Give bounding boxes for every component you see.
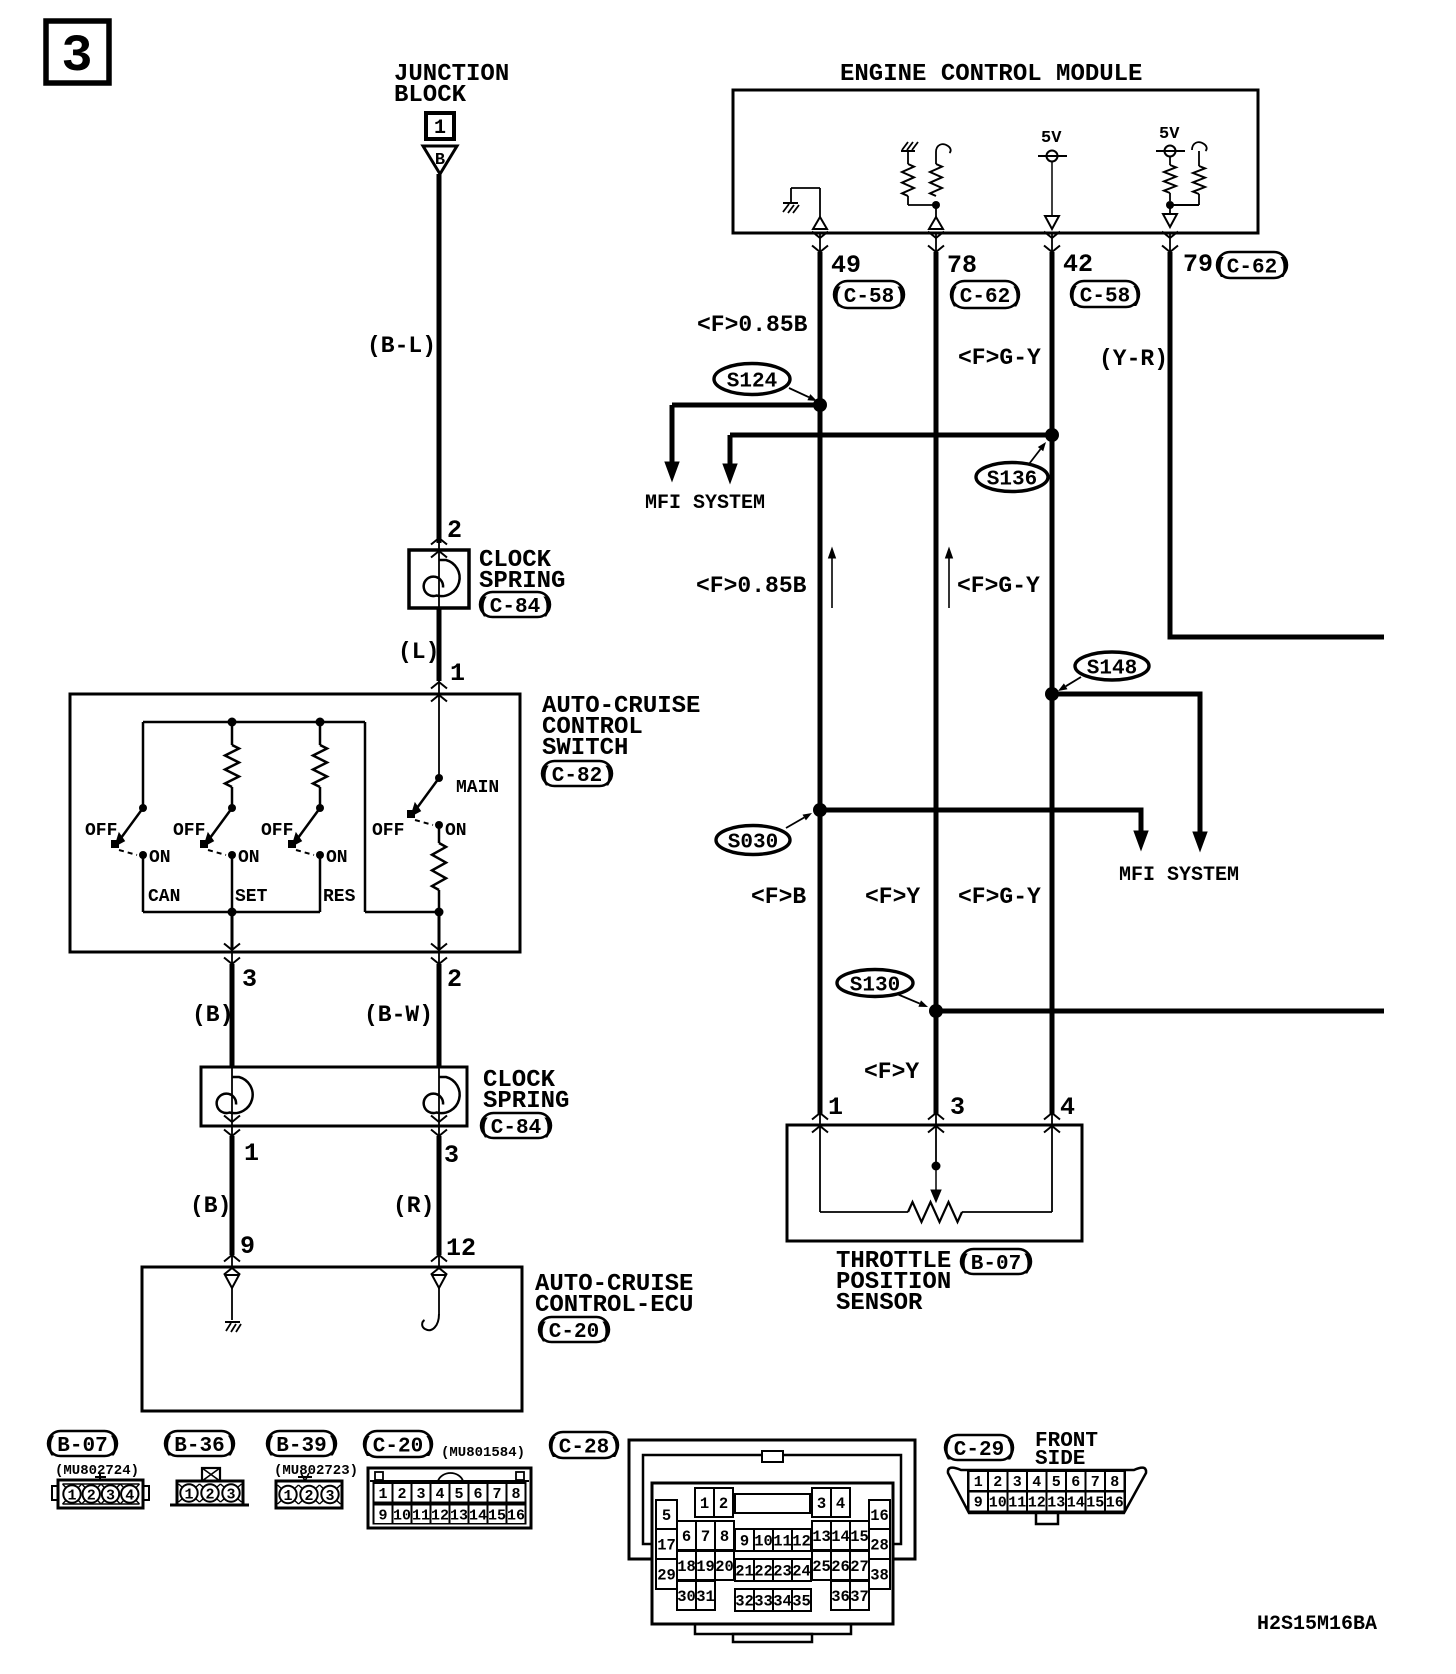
svg-text:ON: ON (326, 848, 348, 868)
svg-text:21: 21 (735, 1563, 754, 1581)
resistor RES (313, 745, 327, 787)
svg-text:1: 1 (450, 659, 465, 688)
svg-text:14: 14 (831, 1528, 850, 1546)
connector C-20 pinout drawing (368, 1468, 531, 1528)
ECM pin49 connector marks (812, 232, 828, 239)
TPS pin3 connector marks (928, 1113, 944, 1120)
svg-text:23: 23 (773, 1563, 792, 1581)
svg-text:12: 12 (446, 1234, 476, 1263)
splice S130 label (837, 970, 913, 998)
svg-text:17: 17 (657, 1537, 676, 1555)
TPS right wire horizontal (962, 1211, 1052, 1213)
svg-text:<F>G-Y: <F>G-Y (957, 573, 1040, 599)
TPS pin4 connector marks (1044, 1113, 1060, 1120)
TPS label (836, 1248, 951, 1317)
svg-text:10: 10 (989, 1495, 1007, 1512)
auto-cruise control switch box C-82 (70, 694, 520, 952)
splice S124 label (714, 364, 790, 395)
svg-text:(C-62): (C-62) (947, 286, 1023, 309)
node bus-RES (316, 718, 325, 727)
svg-text:(R): (R) (393, 1193, 434, 1219)
svg-text:1: 1 (974, 1474, 983, 1491)
svg-text:5: 5 (454, 1486, 463, 1503)
connector B-39 pinout drawing (276, 1473, 342, 1508)
svg-text:ENGINE CONTROL MODULE: ENGINE CONTROL MODULE (840, 61, 1142, 88)
connector label C-84 upper (477, 592, 553, 619)
svg-text:MAIN: MAIN (456, 778, 499, 798)
bus drop SET lower (231, 787, 234, 808)
svg-text:3: 3 (61, 27, 92, 86)
svg-text:1: 1 (283, 1488, 292, 1505)
svg-text:3: 3 (950, 1093, 965, 1122)
svg-text:2: 2 (993, 1474, 1002, 1491)
svg-text:<F>0.85B: <F>0.85B (697, 312, 808, 338)
clock spring lower left spiral (217, 1077, 253, 1113)
svg-text:22: 22 (754, 1563, 773, 1581)
switch RES (288, 804, 324, 859)
svg-text:34: 34 (773, 1593, 792, 1611)
svg-text:3: 3 (416, 1486, 425, 1503)
splice S148 label (1075, 652, 1149, 681)
switch MAIN (407, 774, 443, 829)
splice S130 leader (897, 994, 920, 1004)
clock spring lower left wire (231, 1067, 233, 1126)
connector label B-39 (264, 1431, 340, 1458)
svg-text:4: 4 (435, 1486, 444, 1503)
svg-text:14: 14 (1067, 1495, 1085, 1512)
svg-text:6: 6 (1071, 1474, 1080, 1491)
TPS pin4 wire (1051, 1125, 1053, 1212)
connector label C-84 lower (478, 1113, 554, 1140)
svg-text:78: 78 (947, 251, 977, 280)
svg-text:<F>G-Y: <F>G-Y (958, 884, 1041, 910)
auto-cruise control switch label (542, 693, 700, 762)
wire pin12 thin (438, 1255, 440, 1267)
svg-text:4: 4 (836, 1495, 845, 1513)
svg-text:ON: ON (238, 848, 260, 868)
wire S030 branch (820, 810, 1141, 830)
svg-text:OFF: OFF (85, 821, 117, 841)
ECM pin79 5V pullups (1156, 125, 1207, 227)
svg-text:S130: S130 (850, 975, 900, 998)
svg-text:(B-W): (B-W) (364, 1002, 433, 1028)
svg-text:12: 12 (792, 1533, 811, 1551)
svg-text:11: 11 (1008, 1495, 1026, 1512)
svg-text:35: 35 (792, 1593, 811, 1611)
svg-text:OFF: OFF (173, 821, 205, 841)
splice S124 leader (789, 388, 809, 397)
svg-text:11: 11 (412, 1508, 430, 1525)
connector marks pin 3 lower (431, 1116, 447, 1123)
svg-text:38: 38 (870, 1567, 889, 1585)
node S124 (813, 398, 827, 412)
svg-text:S030: S030 (728, 832, 778, 855)
svg-text:SENSOR: SENSOR (836, 1290, 923, 1317)
svg-text:CAN: CAN (148, 887, 180, 907)
svg-text:BLOCK: BLOCK (394, 82, 467, 109)
TPS pin1 wire (819, 1125, 821, 1212)
svg-text:37: 37 (850, 1588, 869, 1606)
bus drop RES lower (319, 787, 322, 808)
ECU hook symbol (422, 1314, 439, 1330)
svg-text:(B): (B) (192, 1002, 233, 1028)
svg-text:<F>Y: <F>Y (864, 1059, 919, 1085)
svg-text:9: 9 (974, 1495, 983, 1512)
svg-text:(B-07): (B-07) (45, 1435, 121, 1458)
connector label C-20 (360, 1431, 436, 1459)
splice S136 label (976, 463, 1048, 492)
connector label B-36 (162, 1431, 238, 1458)
svg-text:(C-84): (C-84) (477, 596, 553, 619)
connector marks pin 1 lower (224, 1116, 240, 1123)
svg-text:49: 49 (831, 251, 861, 280)
junction block triangle B (423, 146, 457, 174)
wire 78 vertical (934, 252, 939, 1115)
ECU ground symbol (225, 1322, 241, 1332)
connector label C-29 (941, 1435, 1017, 1462)
bus drop CAN (142, 722, 145, 808)
bus drop RES upper (319, 722, 322, 745)
ECU label (535, 1271, 693, 1319)
resistor SET (225, 745, 239, 787)
connector marks pin 2 bottom (431, 944, 447, 951)
svg-text:18: 18 (677, 1558, 696, 1576)
svg-text:1: 1 (828, 1093, 843, 1122)
ECU pin12 wire (438, 1288, 440, 1314)
page index box 3 (46, 21, 109, 86)
arrow up wire49 (829, 548, 836, 608)
svg-text:(C-28): (C-28) (546, 1437, 622, 1460)
clock spring lower label (483, 1067, 569, 1115)
svg-text:(B-39): (B-39) (264, 1435, 340, 1458)
svg-text:2: 2 (447, 965, 462, 994)
svg-text:5: 5 (1052, 1474, 1061, 1491)
svg-text:SET: SET (235, 887, 268, 907)
svg-text:2: 2 (205, 1487, 214, 1504)
svg-text:7: 7 (1091, 1474, 1100, 1491)
svg-text:20: 20 (715, 1558, 734, 1576)
svg-text:SPRING: SPRING (483, 1088, 569, 1115)
connector B-36 pinout drawing (170, 1468, 249, 1505)
splice S136 leader (1029, 449, 1040, 464)
connector label C-28 (546, 1432, 622, 1460)
wire pin3 inside (231, 912, 234, 950)
svg-text:(MU801584): (MU801584) (441, 1445, 525, 1461)
svg-text:4: 4 (125, 1488, 134, 1505)
svg-text:ON: ON (149, 848, 171, 868)
svg-text:25: 25 (812, 1558, 831, 1576)
svg-text:S148: S148 (1087, 658, 1137, 681)
wire RES ON drop (319, 855, 322, 912)
wire 79 horizontal (1168, 635, 1385, 640)
connector label B-07 TPS (958, 1249, 1034, 1276)
svg-text:SWITCH: SWITCH (542, 735, 628, 762)
svg-text:SIDE: SIDE (1035, 1448, 1085, 1471)
svg-text:5V: 5V (1041, 129, 1062, 148)
svg-text:MFI SYSTEM: MFI SYSTEM (645, 492, 765, 515)
svg-text:5V: 5V (1159, 125, 1180, 144)
clock spring C-84 upper box (409, 550, 469, 608)
TPS pin stubs thin (819, 1113, 821, 1125)
svg-text:6: 6 (473, 1486, 482, 1503)
svg-text:13: 13 (812, 1528, 831, 1546)
connector label C-62 pin78 (947, 281, 1023, 309)
svg-text:12: 12 (431, 1508, 449, 1525)
engine control module box (733, 90, 1258, 233)
svg-text:B: B (435, 151, 445, 170)
wire S124 branch horizontal (672, 403, 820, 408)
node S030 (813, 803, 827, 817)
svg-text:1: 1 (700, 1495, 709, 1513)
pin stubs thin switch bottom (231, 950, 233, 966)
svg-text:(C-20): (C-20) (360, 1436, 436, 1459)
connector label C-82 (539, 761, 615, 788)
svg-text:(B-L): (B-L) (367, 333, 436, 359)
svg-text:13: 13 (450, 1508, 468, 1525)
clock spring upper spiral (424, 560, 460, 596)
svg-text:1: 1 (67, 1488, 76, 1505)
wire 49 vertical (818, 252, 823, 1115)
ECM pin stubs thin (819, 233, 821, 254)
node MAIN bottom (435, 908, 444, 917)
bus drop SET upper (231, 722, 234, 745)
svg-text:4: 4 (1060, 1093, 1075, 1122)
svg-text:12: 12 (1028, 1495, 1046, 1512)
clock spring upper label (479, 547, 565, 595)
node S130 (929, 1004, 943, 1018)
junction block label (394, 61, 509, 109)
svg-text:OFF: OFF (261, 821, 293, 841)
resistor MAIN (432, 843, 446, 890)
connector marks pin 3 bottom (224, 944, 240, 951)
svg-text:9: 9 (740, 1533, 749, 1551)
clock spring C-84 lower box (201, 1067, 467, 1126)
svg-text:(C-62): (C-62) (1214, 257, 1290, 280)
connector C-28 pinout drawing (629, 1440, 915, 1642)
svg-text:31: 31 (696, 1588, 715, 1606)
svg-text:(L): (L) (398, 639, 439, 665)
TPS wiper arrow (931, 1166, 941, 1202)
svg-text:16: 16 (1106, 1495, 1124, 1512)
wire S124 branch down-arrow (670, 405, 675, 465)
bus right drop (364, 722, 367, 912)
svg-text:7: 7 (492, 1486, 501, 1503)
svg-text:7: 7 (701, 1528, 710, 1546)
svg-text:8: 8 (720, 1528, 729, 1546)
TPS pin1 connector marks (812, 1113, 828, 1120)
wire S148 branch (1052, 694, 1200, 830)
auto-cruise control ECU box C-20 (142, 1267, 522, 1411)
splice S030 label (716, 826, 790, 855)
splice S030 leader (786, 817, 804, 828)
wire 79 vertical (1168, 252, 1173, 637)
connector label C-62 pin79 (1214, 252, 1290, 280)
svg-text:11: 11 (773, 1533, 792, 1551)
svg-text:3: 3 (226, 1487, 235, 1504)
svg-text:(C-29): (C-29) (941, 1439, 1017, 1462)
svg-text:CONTROL-ECU: CONTROL-ECU (535, 1292, 693, 1319)
ECM pin42 5V supply (1038, 129, 1067, 229)
wire (L) clock spring to switch (437, 608, 442, 681)
svg-text:5: 5 (662, 1507, 671, 1525)
svg-text:27: 27 (850, 1558, 869, 1576)
ECU pin9 triangle (225, 1275, 239, 1288)
ECM pin78 pullup resistors (901, 142, 951, 229)
svg-text:<F>B: <F>B (751, 884, 806, 910)
ECM pin49 ground circuit (783, 188, 827, 229)
clock spring upper wire through (438, 550, 440, 608)
TPS left wire horizontal (820, 1211, 908, 1213)
svg-text:2: 2 (87, 1488, 96, 1505)
svg-text:28: 28 (870, 1537, 889, 1555)
svg-text:<F>0.85B: <F>0.85B (696, 573, 807, 599)
svg-text:(Y-R): (Y-R) (1099, 346, 1168, 372)
connector C-29 pinout drawing (948, 1468, 1146, 1524)
splice S148 leader (1066, 677, 1081, 686)
svg-text:36: 36 (831, 1588, 850, 1606)
junction block connector 1 box (426, 113, 454, 140)
svg-text:6: 6 (682, 1528, 691, 1546)
svg-text:MFI SYSTEM: MFI SYSTEM (1119, 864, 1239, 887)
svg-text:(MU802723): (MU802723) (274, 1463, 358, 1479)
svg-text:(C-82): (C-82) (539, 765, 615, 788)
svg-text:14: 14 (469, 1508, 487, 1525)
svg-text:2: 2 (719, 1495, 728, 1513)
svg-text:24: 24 (792, 1563, 811, 1581)
node S136 (1045, 428, 1059, 442)
svg-text:3: 3 (817, 1495, 826, 1513)
svg-text:33: 33 (754, 1593, 773, 1611)
svg-text:15: 15 (1086, 1495, 1104, 1512)
svg-text:S136: S136 (987, 469, 1037, 492)
svg-text:2: 2 (304, 1488, 313, 1505)
svg-text:(B): (B) (190, 1193, 231, 1219)
connector label C-58 pin49 (831, 281, 907, 309)
TPS pin3 wire (935, 1125, 937, 1166)
wire S148 arrow (1198, 830, 1203, 835)
wire S130 branch (936, 1009, 1384, 1014)
svg-text:42: 42 (1063, 250, 1093, 279)
wire (B-L) junction block to clock spring (437, 174, 442, 543)
svg-text:2: 2 (397, 1486, 406, 1503)
svg-text:(B-07): (B-07) (958, 1253, 1034, 1276)
wire (B-W) switch to clock spring (437, 964, 442, 1067)
svg-text:13: 13 (1047, 1495, 1065, 1512)
wire (B) to ECU (230, 1136, 235, 1255)
svg-text:RES: RES (323, 887, 356, 907)
svg-text:3: 3 (325, 1488, 334, 1505)
label FRONT SIDE (1035, 1430, 1098, 1471)
wire pin1 thin segment (438, 681, 440, 694)
clock spring lower right wire (438, 1067, 440, 1126)
wire MAIN to resistor (438, 825, 441, 843)
wire pin9 thin (231, 1255, 233, 1267)
wire SET ON drop (231, 855, 234, 912)
svg-text:ON: ON (445, 821, 467, 841)
ECM pin78 connector marks (928, 232, 944, 239)
svg-text:15: 15 (488, 1508, 506, 1525)
svg-text:3: 3 (106, 1488, 115, 1505)
svg-text:3: 3 (1013, 1474, 1022, 1491)
connector label B-07 (45, 1431, 121, 1458)
svg-text:S124: S124 (727, 371, 777, 394)
svg-text:1: 1 (378, 1486, 387, 1503)
wire (B) switch to clock spring (230, 964, 235, 1067)
connector label C-58 pin42 (1067, 281, 1143, 309)
switch SET (200, 804, 236, 859)
svg-text:3: 3 (242, 965, 257, 994)
svg-text:1: 1 (434, 117, 446, 140)
TPS wiper node (932, 1162, 941, 1171)
node bus-SET (228, 718, 237, 727)
ECU pin9 wire (231, 1288, 233, 1320)
svg-text:4: 4 (1032, 1474, 1041, 1491)
connector label C-20 ECU (536, 1317, 612, 1344)
node rail pin3 (228, 908, 237, 917)
svg-text:9: 9 (240, 1232, 255, 1261)
svg-text:(C-58): (C-58) (831, 286, 907, 309)
wire 42 vertical (1050, 252, 1055, 1115)
wire MFI branch 2 horizontal (730, 433, 1052, 438)
connector marks pin 9 (224, 1255, 240, 1262)
svg-text:8: 8 (511, 1486, 520, 1503)
svg-text:1: 1 (184, 1487, 193, 1504)
svg-text:(C-20): (C-20) (536, 1321, 612, 1344)
svg-text:OFF: OFF (372, 821, 404, 841)
svg-text:3: 3 (444, 1141, 459, 1170)
svg-text:2: 2 (447, 516, 462, 545)
ECM pin42 connector marks (1044, 232, 1060, 239)
wire pin2 inside (438, 912, 441, 950)
wire switch common (438, 694, 440, 778)
wire S030 arrow (1139, 830, 1144, 834)
svg-text:19: 19 (696, 1558, 715, 1576)
svg-text:16: 16 (870, 1507, 889, 1525)
svg-text:H2S15M16BA: H2S15M16BA (1257, 1613, 1377, 1636)
switch bottom rail (143, 911, 320, 914)
svg-text:16: 16 (507, 1508, 525, 1525)
svg-text:32: 32 (735, 1593, 754, 1611)
wire (R) to ECU (437, 1136, 442, 1255)
switch top bus (143, 721, 365, 724)
connector B-07 pinout drawing (52, 1474, 149, 1508)
svg-text:15: 15 (850, 1528, 869, 1546)
wire MAIN resistor to node (438, 890, 441, 912)
svg-text:26: 26 (831, 1558, 850, 1576)
svg-text:(B-36): (B-36) (162, 1435, 238, 1458)
svg-text:30: 30 (677, 1588, 696, 1606)
node S148 (1045, 687, 1059, 701)
wire CAN ON drop (142, 855, 145, 912)
svg-text:(C-84): (C-84) (478, 1117, 554, 1140)
TPS potentiometer resistor (908, 1202, 962, 1222)
ECU pin12 triangle (432, 1275, 446, 1288)
throttle position sensor box (787, 1125, 1082, 1241)
wire MFI branch 2 down-arrow (728, 435, 733, 467)
connector marks pin 2 (431, 538, 447, 545)
arrow up wire42 (946, 548, 953, 608)
svg-text:(C-58): (C-58) (1067, 286, 1143, 309)
svg-text:<F>Y: <F>Y (865, 884, 920, 910)
switch CAN (111, 804, 147, 859)
svg-text:<F>G-Y: <F>G-Y (958, 345, 1041, 371)
svg-text:1: 1 (244, 1139, 259, 1168)
svg-text:10: 10 (754, 1533, 773, 1551)
svg-text:79: 79 (1183, 250, 1213, 279)
wire bus to MAIN node (365, 911, 439, 914)
svg-text:9: 9 (378, 1508, 387, 1525)
pin 2 stub thin (438, 541, 440, 550)
